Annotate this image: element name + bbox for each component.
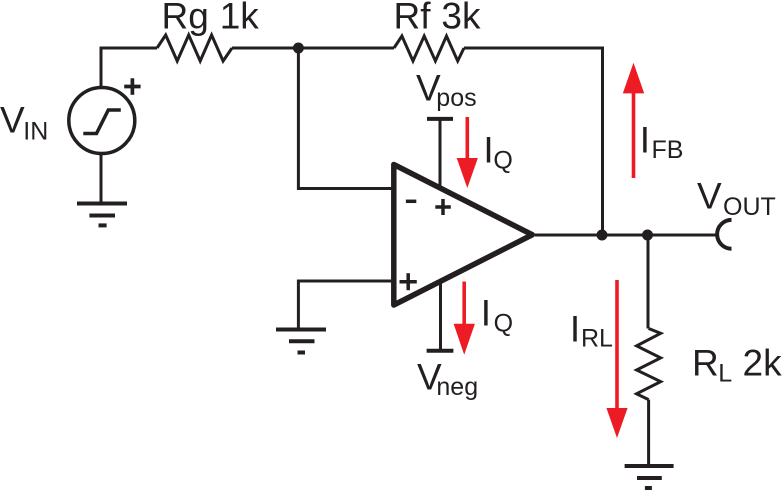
ground (RL bottom) — [625, 466, 674, 488]
wire RL to ground — [647, 400, 650, 466]
slew symbol inside source — [83, 110, 121, 134]
svg-text:V: V — [697, 176, 722, 217]
wire source top to Rg — [101, 48, 157, 88]
svg-text:OUT: OUT — [723, 193, 776, 221]
svg-text:I: I — [481, 293, 491, 334]
resistor Rg — [157, 35, 232, 61]
node A (inverting junction) — [293, 43, 304, 54]
Vpos supply terminal — [427, 119, 453, 188]
svg-text:3k: 3k — [441, 0, 481, 37]
source VIN circle — [69, 88, 135, 154]
plus sign at source — [124, 78, 140, 95]
wire Rg to Rf across node — [232, 47, 394, 50]
svg-text:I: I — [570, 309, 580, 350]
ground (noninverting input) — [276, 330, 326, 353]
op-amp supply plus label — [435, 199, 451, 215]
wire output node down to RL — [647, 235, 650, 329]
svg-text:Rf: Rf — [394, 0, 432, 37]
svg-text:IN: IN — [23, 118, 48, 146]
svg-text:neg: neg — [436, 373, 478, 401]
wire Rf to right corner down to output node — [464, 48, 603, 235]
resistor Rf — [394, 36, 464, 61]
svg-text:L: L — [718, 359, 732, 387]
op-amp minus label — [406, 200, 416, 204]
svg-text:Rg: Rg — [162, 0, 209, 37]
wire — [101, 35, 718, 466]
output open terminal arc — [717, 220, 731, 249]
svg-text:2k: 2k — [743, 343, 783, 384]
current arrow IQ bottom — [454, 282, 475, 355]
wire noninverting input from ground — [298, 281, 393, 329]
current arrow IRL (down) — [606, 280, 627, 438]
svg-text:Q: Q — [493, 147, 512, 175]
wire output — [535, 234, 718, 237]
op-amp noninverting plus label — [400, 273, 417, 290]
svg-text:R: R — [692, 343, 719, 384]
svg-text:I: I — [640, 120, 650, 161]
svg-text:Q: Q — [494, 310, 513, 338]
current arrow IQ top — [457, 117, 478, 188]
current arrow IFB (up) — [623, 63, 644, 178]
wire source bottom to ground — [100, 154, 103, 204]
node B (feedback/output junction) — [597, 230, 608, 241]
svg-text:I: I — [483, 130, 493, 171]
svg-text:FB: FB — [652, 136, 684, 164]
svg-text:pos: pos — [436, 84, 476, 112]
op-amp U1 — [394, 165, 533, 306]
svg-text:V: V — [0, 100, 25, 141]
ground (source) — [77, 204, 127, 226]
svg-text:RL: RL — [581, 325, 613, 353]
svg-text:1k: 1k — [220, 0, 260, 37]
node C (load junction) — [642, 230, 653, 241]
resistor RL — [637, 329, 661, 400]
Vneg supply terminal — [427, 282, 454, 351]
wire node down to inverting input — [298, 48, 393, 189]
